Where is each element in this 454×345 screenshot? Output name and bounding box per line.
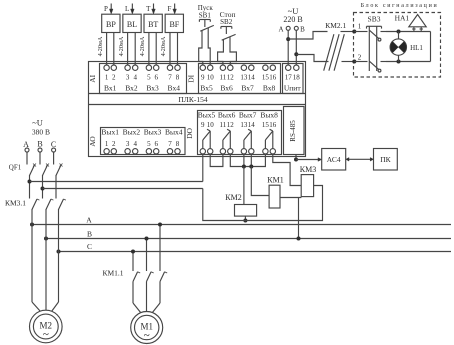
svg-text:SB3: SB3 — [368, 14, 381, 23]
svg-text:14: 14 — [248, 74, 256, 82]
svg-text:Вых1: Вых1 — [101, 128, 119, 137]
svg-text:DI: DI — [187, 74, 196, 82]
svg-text:2: 2 — [112, 74, 116, 82]
svg-text:АС4: АС4 — [327, 155, 341, 164]
svg-text:8: 8 — [176, 74, 180, 82]
svg-text:11: 11 — [220, 121, 227, 129]
svg-text:14: 14 — [248, 121, 256, 129]
svg-text:17: 17 — [285, 74, 293, 82]
svg-text:АО: АО — [88, 136, 97, 147]
svg-text:12: 12 — [227, 121, 235, 129]
svg-text:2: 2 — [358, 54, 362, 62]
svg-text:Блок сигнализации: Блок сигнализации — [361, 3, 439, 9]
svg-text:SB1: SB1 — [199, 12, 212, 20]
svg-text:3: 3 — [126, 140, 130, 148]
svg-text:15: 15 — [262, 74, 270, 82]
svg-text:1: 1 — [358, 23, 362, 31]
svg-text:Uпит: Uпит — [284, 84, 301, 93]
svg-text:Вых8: Вых8 — [260, 111, 278, 120]
svg-text:1: 1 — [105, 140, 109, 148]
svg-text:RS-485: RS-485 — [289, 120, 297, 142]
svg-text:DO: DO — [185, 128, 194, 139]
svg-text:Вх1: Вх1 — [104, 84, 117, 93]
svg-text:9: 9 — [201, 121, 205, 129]
svg-text:В: В — [37, 140, 42, 149]
svg-text:4-20мА: 4-20мА — [160, 36, 167, 56]
svg-text:Вых3: Вых3 — [144, 128, 162, 137]
svg-text:КМ2: КМ2 — [225, 193, 241, 202]
svg-text:8: 8 — [176, 140, 180, 148]
svg-text:Вых2: Вых2 — [123, 128, 141, 137]
svg-text:SB2: SB2 — [220, 18, 233, 26]
svg-text:5: 5 — [147, 74, 151, 82]
svg-text:Вых5: Вых5 — [198, 111, 216, 120]
svg-text:QF1: QF1 — [9, 164, 22, 172]
svg-text:T: T — [146, 5, 151, 13]
svg-text:4-20мА: 4-20мА — [139, 36, 146, 56]
svg-text:НА1: НА1 — [395, 13, 410, 22]
svg-text:Вых4: Вых4 — [165, 128, 183, 137]
svg-text:15: 15 — [262, 121, 270, 129]
svg-text:BF: BF — [169, 20, 179, 29]
svg-text:1: 1 — [105, 74, 109, 82]
svg-text:С: С — [87, 242, 92, 251]
svg-text:Вх2: Вх2 — [125, 84, 138, 93]
svg-text:В: В — [87, 230, 92, 239]
svg-text:BT: BT — [148, 20, 158, 29]
svg-text:10: 10 — [207, 121, 215, 129]
svg-text:3: 3 — [126, 74, 130, 82]
svg-text:КМ3.1: КМ3.1 — [5, 199, 26, 208]
svg-text:4-20мА: 4-20мА — [97, 36, 104, 56]
svg-text:6: 6 — [154, 140, 158, 148]
svg-text:2: 2 — [112, 140, 116, 148]
svg-text:КМ3: КМ3 — [300, 165, 316, 174]
svg-text:4: 4 — [133, 140, 137, 148]
svg-text:F: F — [167, 5, 171, 13]
svg-text:16: 16 — [269, 121, 277, 129]
svg-text:AI: AI — [88, 74, 97, 82]
svg-text:10: 10 — [207, 74, 215, 82]
svg-text:4: 4 — [133, 74, 137, 82]
svg-text:Вых6: Вых6 — [218, 111, 236, 120]
svg-text:7: 7 — [168, 74, 172, 82]
svg-text:ПК: ПК — [380, 155, 391, 164]
svg-text:13: 13 — [240, 74, 248, 82]
svg-text:Вх3: Вх3 — [146, 84, 159, 93]
svg-text:P: P — [104, 5, 108, 13]
svg-text:4-20мА: 4-20мА — [118, 36, 125, 56]
svg-text:Вх5: Вх5 — [200, 84, 213, 93]
svg-text:~: ~ — [144, 330, 150, 342]
svg-text:16: 16 — [269, 74, 277, 82]
svg-text:Вх4: Вх4 — [168, 84, 181, 93]
svg-text:BL: BL — [127, 20, 137, 29]
svg-text:11: 11 — [220, 74, 227, 82]
svg-text:7: 7 — [168, 140, 172, 148]
svg-text:В: В — [300, 26, 305, 34]
svg-text:КМ1.1: КМ1.1 — [102, 268, 123, 277]
svg-text:6: 6 — [154, 74, 158, 82]
svg-text:КМ1: КМ1 — [267, 176, 283, 185]
svg-text:BP: BP — [106, 20, 116, 29]
svg-text:~: ~ — [43, 329, 49, 341]
svg-text:HL1: HL1 — [410, 44, 423, 52]
svg-text:L: L — [125, 5, 129, 13]
svg-text:18: 18 — [293, 74, 301, 82]
svg-text:5: 5 — [147, 140, 151, 148]
svg-text:Вх8: Вх8 — [263, 84, 276, 93]
svg-text:~U: ~U — [32, 118, 43, 128]
svg-text:12: 12 — [227, 74, 235, 82]
svg-text:Вых7: Вых7 — [239, 111, 257, 120]
svg-text:13: 13 — [240, 121, 248, 129]
svg-text:А: А — [278, 26, 283, 34]
svg-text:Вх7: Вх7 — [241, 84, 254, 93]
svg-text:220 В: 220 В — [283, 15, 302, 24]
svg-text:Вх6: Вх6 — [220, 84, 233, 93]
svg-text:КМ2.1: КМ2.1 — [325, 21, 346, 30]
svg-text:А: А — [86, 216, 92, 225]
svg-text:ПЛК-154: ПЛК-154 — [178, 95, 208, 104]
svg-text:380 В: 380 В — [32, 128, 50, 137]
svg-text:9: 9 — [201, 74, 205, 82]
